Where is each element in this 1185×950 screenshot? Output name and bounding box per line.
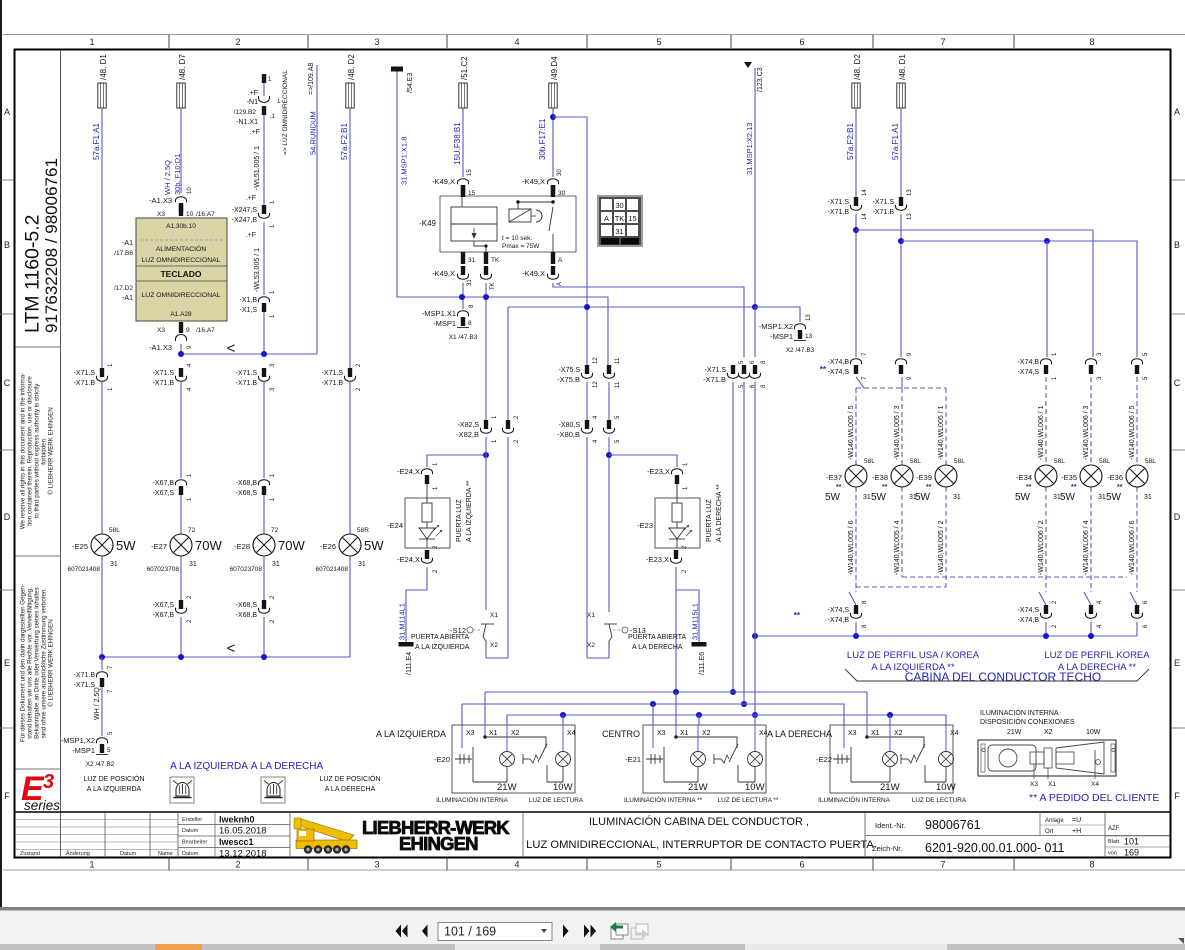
wire 57a.F2:B1 right xyxy=(855,108,857,197)
svg-text:70W: 70W xyxy=(278,538,305,553)
lamp E27 70W xyxy=(146,527,222,573)
svg-text:-W140,WL006 / 5: -W140,WL006 / 5 xyxy=(1129,405,1136,460)
wire module stubs xyxy=(462,692,890,725)
svg-text:10W: 10W xyxy=(936,782,956,793)
svg-text:-X71.B: -X71.B xyxy=(153,380,175,387)
svg-text:X3: X3 xyxy=(157,211,165,218)
svg-text:A: A xyxy=(604,214,609,223)
label LUZ DE PERFIL USA/KOREA xyxy=(847,650,980,673)
svg-text:=> LUZ OMNIDIRECCIONAL: => LUZ OMNIDIRECCIONAL xyxy=(282,70,289,155)
svg-text:-X1,B: -X1,B xyxy=(239,297,257,304)
svg-text:-E25: -E25 xyxy=(72,542,88,551)
svg-text:31: 31 xyxy=(358,561,366,568)
lamp E39 5W xyxy=(915,405,965,575)
wire 31.MSP1:X2.13 xyxy=(754,68,756,307)
svg-text:31.M115L1: 31.M115L1 xyxy=(691,603,700,640)
wire X71.3 down xyxy=(263,382,265,478)
svg-text:A LA DERECHA **: A LA DERECHA ** xyxy=(716,484,723,542)
svg-text:X4: X4 xyxy=(1091,781,1099,788)
svg-text:30: 30 xyxy=(558,190,566,197)
svg-text:**: ** xyxy=(1117,484,1123,491)
svg-text:-MSP1: -MSP1 xyxy=(433,319,456,328)
fixture drawing ILUMINACION INTERNA DISPOSICION CONEXIONES xyxy=(978,708,1116,788)
svg-text:LUZ OMNIDIRECCIONAL: LUZ OMNIDIRECCIONAL xyxy=(142,257,221,264)
lamp E36 5W xyxy=(1106,405,1156,575)
fuse F17 30b.F17:E1 xyxy=(538,56,559,160)
connector X71 pins 5 6 8 xyxy=(703,360,767,388)
svg-text:/51.C2: /51.C2 xyxy=(460,56,469,80)
svg-text:A1.A28: A1.A28 xyxy=(170,311,192,318)
svg-text:LUZ DE PERFIL KOREA: LUZ DE PERFIL KOREA xyxy=(1044,650,1150,661)
interior light module E20 xyxy=(376,725,584,804)
svg-text:=>/109.A8: =>/109.A8 xyxy=(308,63,315,95)
svg-text:-X80,S: -X80,S xyxy=(559,422,581,429)
wire 54.RUNDUM vertical xyxy=(316,65,318,354)
wire WL51.005 vertical xyxy=(254,83,264,205)
svg-text:D: D xyxy=(4,512,11,522)
svg-text:8: 8 xyxy=(468,320,472,327)
svg-text:-X71.S: -X71.S xyxy=(828,199,850,206)
svg-text:5W: 5W xyxy=(116,538,136,553)
svg-text:X4: X4 xyxy=(950,730,959,737)
svg-text:DISPOSICIÓN CONEXIONES: DISPOSICIÓN CONEXIONES xyxy=(980,717,1075,726)
svg-text:Datum: Datum xyxy=(182,828,199,834)
svg-text:/48. D1: /48. D1 xyxy=(898,54,907,80)
svg-text:Pmax = 75W: Pmax = 75W xyxy=(502,243,540,250)
svg-text:-MSP1: -MSP1 xyxy=(770,332,793,341)
svg-text:AZF: AZF xyxy=(1108,826,1120,832)
wire E24 to M114 ref xyxy=(406,567,427,642)
wire E27 down xyxy=(180,556,182,600)
svg-text:Ident.-Nr.: Ident.-Nr. xyxy=(875,821,906,830)
svg-text:3: 3 xyxy=(43,771,54,793)
svg-text:X2: X2 xyxy=(587,642,595,649)
svg-text:-X71.B: -X71.B xyxy=(322,380,344,387)
svg-text:11: 11 xyxy=(615,357,621,364)
connector X82 pin 2 xyxy=(456,415,520,443)
svg-text:X3: X3 xyxy=(1030,781,1038,788)
svg-text:-MSP1: -MSP1 xyxy=(72,746,95,755)
label LUZ DE POSICION A LA DERECHA xyxy=(319,774,380,793)
fuse F2 57a.F2:B1 left xyxy=(340,54,356,160)
svg-text:3: 3 xyxy=(374,860,379,870)
wire E23 to M115 ref xyxy=(675,567,677,691)
svg-text:8: 8 xyxy=(1089,860,1094,870)
svg-text:X1 /47.B3: X1 /47.B3 xyxy=(449,334,478,341)
svg-text:-E24,X: -E24,X xyxy=(397,555,420,564)
svg-text:13: 13 xyxy=(907,213,913,220)
svg-text:Ort: Ort xyxy=(1045,829,1054,835)
svg-text:10: 10 xyxy=(186,211,194,218)
wire X71.2 to lamp E26 xyxy=(349,382,351,534)
svg-text:Iweknh0: Iweknh0 xyxy=(219,815,255,825)
svg-text:forbidden.: forbidden. xyxy=(41,437,48,465)
svg-text:10: 10 xyxy=(187,187,193,194)
svg-text:-E36: -E36 xyxy=(1107,473,1123,482)
svg-text:X2: X2 xyxy=(894,730,903,737)
svg-text:X2 /47.B2: X2 /47.B2 xyxy=(86,761,115,768)
svg-text:**: ** xyxy=(926,484,932,491)
wire X80.4 down to S13 xyxy=(586,437,588,658)
svg-text:CABINA DEL CONDUCTOR TECHO: CABINA DEL CONDUCTOR TECHO xyxy=(905,670,1101,684)
svg-text:-X71.S: -X71.S xyxy=(873,199,895,206)
svg-text:LUZ DE LECTURA: LUZ DE LECTURA xyxy=(529,797,584,804)
svg-text:31: 31 xyxy=(615,227,623,236)
svg-text:8: 8 xyxy=(1089,37,1094,47)
svg-text:A LA IZQUIERDA: A LA IZQUIERDA xyxy=(170,761,248,772)
wire ground bus 31 right xyxy=(752,633,1137,639)
connector E23.X pin 2 xyxy=(646,545,688,573)
svg-text:Für dieses Dokument und den da: Für dieses Dokument und den darin darges… xyxy=(20,584,27,742)
connector MSP1.X2 pin 13 xyxy=(755,307,815,354)
wire bus X3 lamps xyxy=(462,701,844,725)
svg-text:Zustand: Zustand xyxy=(20,851,40,857)
svg-text:-N1: -N1 xyxy=(247,99,258,106)
svg-text:A LA IZQUIERDA: A LA IZQUIERDA xyxy=(415,644,470,651)
svg-text:31: 31 xyxy=(863,494,871,501)
wire WL53.005 vertical xyxy=(246,222,264,295)
svg-text:/54.E3: /54.E3 xyxy=(407,73,414,93)
svg-text:-X67,S: -X67,S xyxy=(153,602,175,609)
svg-text:Datum: Datum xyxy=(120,851,137,857)
svg-text:31.MSP1:X2.13: 31.MSP1:X2.13 xyxy=(745,122,754,175)
svg-text:101: 101 xyxy=(1124,837,1139,847)
svg-text:5W: 5W xyxy=(1106,492,1122,503)
wire 30b.F10:D1 vertical xyxy=(180,108,182,193)
svg-text:-W140,WL005 / 3: -W140,WL005 / 3 xyxy=(894,405,901,460)
svg-text:Anlage: Anlage xyxy=(1045,818,1064,824)
svg-text:-E39: -E39 xyxy=(916,473,932,482)
svg-text:Bekanntgabe an Dritte oder Ver: Bekanntgabe an Dritte oder Verwertung se… xyxy=(34,587,41,739)
svg-text:-W140,WL006 / 1: -W140,WL006 / 1 xyxy=(1038,405,1045,460)
wire dashed harness top xyxy=(856,377,1137,592)
svg-text:X1: X1 xyxy=(587,612,595,619)
svg-text:t = 10 sek.: t = 10 sek. xyxy=(502,235,532,242)
svg-text:**: ** xyxy=(882,484,888,491)
wire 57a.F1:A1 vertical xyxy=(101,108,103,368)
svg-text:58L: 58L xyxy=(1145,458,1156,465)
svg-text:=U: =U xyxy=(1072,817,1081,824)
svg-text:4: 4 xyxy=(514,860,519,870)
svg-text:-X75.S: -X75.S xyxy=(559,367,581,374)
svg-text:-X71.B: -X71.B xyxy=(703,375,726,384)
svg-text:X2 /47.B3: X2 /47.B3 xyxy=(786,347,815,354)
svg-text:5W: 5W xyxy=(871,492,887,503)
svg-text:-X1,S: -X1,S xyxy=(239,307,257,314)
svg-text:/129.B2: /129.B2 xyxy=(234,109,257,116)
svg-text:6: 6 xyxy=(799,37,804,47)
svg-text:ILUMINACIÓN INTERNA: ILUMINACIÓN INTERNA xyxy=(436,795,508,804)
fuse F1b 57a.F1:A1 right xyxy=(891,54,907,160)
svg-text:-K49: -K49 xyxy=(419,219,436,228)
wire S12 loop xyxy=(486,437,508,658)
wire bus right to X74.5 xyxy=(898,214,1137,357)
svg-text:-E27: -E27 xyxy=(151,542,167,551)
svg-text:LUZ OMNIDIRECCIONAL: LUZ OMNIDIRECCIONAL xyxy=(142,292,221,299)
svg-text:X3: X3 xyxy=(157,327,165,334)
svg-text:-K49,X: -K49,X xyxy=(522,269,545,278)
svg-text:+H: +H xyxy=(1072,828,1081,835)
switch S13 door contact xyxy=(587,612,646,649)
svg-text:sind ohne unsere ausdrückliche: sind ohne unsere ausdrückliche Zustimmun… xyxy=(41,588,48,739)
svg-text:LUZ DE POSICIÓN: LUZ DE POSICIÓN xyxy=(319,774,380,783)
beacon icon left xyxy=(170,777,194,803)
connector K49.X pin 30 xyxy=(522,169,566,197)
svg-text:ALIMENTACIÓN: ALIMENTACIÓN xyxy=(156,244,207,253)
svg-text:LUZ OMNIDIRECCIONAL, INTERRUPT: LUZ OMNIDIRECCIONAL, INTERRUPTOR DE CONT… xyxy=(526,839,874,851)
label LUZ DE POSICION A LA IZQUIERDA xyxy=(83,774,144,793)
wire bus X2 X4 lamps xyxy=(507,712,946,725)
label CABINA DEL CONDUCTOR TECHO xyxy=(845,669,1149,684)
wire 30b.F17:E1 vertical xyxy=(550,108,556,177)
svg-text:© LIEBHERR WERK EHINGEN: © LIEBHERR WERK EHINGEN xyxy=(48,407,55,494)
svg-text:B: B xyxy=(4,240,10,250)
svg-text:5: 5 xyxy=(656,37,661,47)
svg-text:-X68,S: -X68,S xyxy=(236,602,258,609)
svg-text:-X71.B: -X71.B xyxy=(236,380,258,387)
connector X67 pin 1 xyxy=(178,482,183,487)
connector X68 pin 2 xyxy=(261,609,266,614)
wire X67 to lamp E27 xyxy=(180,495,182,534)
svg-text:4: 4 xyxy=(514,37,519,47)
svg-text:WH / 2.5Q: WH / 2.5Q xyxy=(94,687,101,720)
svg-text:-W140,WL006 / 6: -W140,WL006 / 6 xyxy=(1129,520,1136,575)
page ref 31.M115L1 /111.E6 xyxy=(691,603,707,675)
connector MSP1.X2 pin 5 xyxy=(61,731,115,768)
interior light module E21 xyxy=(602,725,779,804)
svg-text:1: 1 xyxy=(89,37,94,47)
svg-text:-E23,X: -E23,X xyxy=(646,555,669,564)
wire 31.MSP1:X1.8 xyxy=(397,72,608,366)
svg-text:12: 12 xyxy=(593,357,599,364)
svg-text:-X74,B: -X74,B xyxy=(1018,359,1040,366)
svg-text:5W: 5W xyxy=(1060,492,1076,503)
svg-text:-W140,WL005 / 2: -W140,WL005 / 2 xyxy=(938,520,945,575)
svg-text:PUERTA LUZ: PUERTA LUZ xyxy=(456,499,463,542)
wire 57a.F2:B1 left vertical xyxy=(349,108,351,368)
svg-text:WH / 2.5Q: WH / 2.5Q xyxy=(163,160,172,195)
svg-text:ILUMINACIÓN CABINA DEL CONDUCT: ILUMINACIÓN CABINA DEL CONDUCTOR , xyxy=(589,815,809,828)
LED unit E24 xyxy=(387,480,473,548)
svg-text:607021408: 607021408 xyxy=(67,566,100,573)
svg-text:**: ** xyxy=(1071,484,1077,491)
svg-text:15: 15 xyxy=(468,190,476,197)
svg-text:-N1.X1: -N1.X1 xyxy=(236,119,258,126)
connector X74 pin 6 bottom xyxy=(1130,592,1149,636)
svg-text:15: 15 xyxy=(628,214,636,223)
wire X71.8 drop xyxy=(752,382,758,718)
svg-text:A LA IZQUIERDA **: A LA IZQUIERDA ** xyxy=(466,480,473,542)
wire bus 31 left xyxy=(178,351,317,357)
connector X71 pin 14 xyxy=(853,206,858,211)
svg-text:-X74,B: -X74,B xyxy=(828,617,850,624)
svg-text:-X71.S: -X71.S xyxy=(322,370,344,377)
svg-text:/48. D2: /48. D2 xyxy=(853,54,862,80)
svg-text:15: 15 xyxy=(467,169,473,176)
svg-text:A LA DERECHA: A LA DERECHA xyxy=(251,761,324,772)
page ref 31.M114L1 /111.E4 xyxy=(398,603,414,675)
svg-text:X2: X2 xyxy=(702,730,711,737)
svg-text:X3: X3 xyxy=(848,730,857,737)
svg-text:14: 14 xyxy=(862,213,868,220)
svg-text:-E35: -E35 xyxy=(1061,473,1077,482)
svg-text:-E28: -E28 xyxy=(234,542,250,551)
connector X1 xyxy=(261,299,266,304)
svg-text:10W: 10W xyxy=(553,782,573,793)
svg-text:-X74,S: -X74,S xyxy=(1018,369,1040,376)
svg-text:2: 2 xyxy=(235,37,240,47)
svg-text:-E20: -E20 xyxy=(434,755,450,764)
svg-text:57a.F2:B1: 57a.F2:B1 xyxy=(340,123,349,160)
svg-text:21W: 21W xyxy=(880,782,900,793)
connector X71 pin 1 xyxy=(99,377,104,382)
lamp E38 5W xyxy=(871,405,921,575)
svg-text:X1: X1 xyxy=(490,612,498,619)
svg-text:6: 6 xyxy=(799,860,804,870)
svg-text:-X82,S: -X82,S xyxy=(458,422,480,429)
svg-text:607023708: 607023708 xyxy=(146,566,179,573)
svg-text:5: 5 xyxy=(656,860,661,870)
svg-text:58R: 58R xyxy=(357,527,369,534)
wire keypad to bus xyxy=(180,344,182,354)
svg-text:30: 30 xyxy=(615,201,623,210)
svg-text:<: < xyxy=(227,340,236,357)
svg-text:-W140,WL005 / 4: -W140,WL005 / 4 xyxy=(894,520,901,575)
lamp E26 5W xyxy=(315,527,384,573)
svg-text:TK: TK xyxy=(491,257,500,264)
svg-text:2: 2 xyxy=(235,860,240,870)
wire K49 A to X71 pin6 xyxy=(553,283,744,357)
svg-text:31: 31 xyxy=(189,561,197,568)
svg-text:-X71.B: -X71.B xyxy=(828,209,850,216)
svg-text:-E22: -E22 xyxy=(816,755,832,764)
connector X74 pin 1 top xyxy=(1018,352,1058,380)
svg-text:-X67,S: -X67,S xyxy=(153,490,175,497)
svg-text:31: 31 xyxy=(468,257,476,264)
connector X71 pin 13 xyxy=(898,206,903,211)
connector X74 pin 8 bottom xyxy=(828,592,868,636)
fuse F1 57a.F1:A1 xyxy=(92,54,108,160)
svg-text:TK: TK xyxy=(490,282,496,290)
svg-text:57a.F1:A1: 57a.F1:A1 xyxy=(92,123,101,160)
svg-text:70W: 70W xyxy=(195,538,222,553)
svg-text:-X74,S: -X74,S xyxy=(828,607,850,614)
svg-text:12: 12 xyxy=(593,381,599,388)
lamp E35 5W xyxy=(1060,405,1110,575)
wire branch to X75 feed xyxy=(553,117,587,365)
svg-text:-X75.B: -X75.B xyxy=(557,375,580,384)
svg-text:13: 13 xyxy=(805,333,813,340)
connector X74 pin 4 bottom xyxy=(1084,592,1103,636)
svg-text:7: 7 xyxy=(940,860,945,870)
svg-text:5: 5 xyxy=(107,747,111,754)
svg-text:PUERTA ABIERTA: PUERTA ABIERTA xyxy=(411,634,470,641)
svg-text:E: E xyxy=(4,658,10,668)
svg-text:-E26: -E26 xyxy=(320,542,336,551)
svg-text:C: C xyxy=(4,378,11,388)
relay K49 xyxy=(419,196,576,252)
svg-text:31: 31 xyxy=(110,561,118,568)
svg-text:X4: X4 xyxy=(567,730,576,737)
connector X71 pin 4 xyxy=(178,377,183,382)
svg-text:**: ** xyxy=(836,484,842,491)
wire S12 return to MSP1.X2 xyxy=(507,307,509,420)
page ref /123.C3 31.MSP1:X2.13 xyxy=(744,62,764,175)
wire K49 pin31 to MSP1.X1 xyxy=(459,283,465,309)
svg-text:A: A xyxy=(557,282,563,286)
svg-text:-X80,B: -X80,B xyxy=(557,430,580,439)
wire E23 jog to page ref xyxy=(676,590,699,642)
node N1 supply xyxy=(234,74,281,136)
svg-text:EHINGEN: EHINGEN xyxy=(399,833,478,854)
svg-text:/123.C3: /123.C3 xyxy=(757,67,764,92)
svg-text:We reserve all rights in this: We reserve all rights in this document a… xyxy=(20,373,27,529)
svg-text:-X71.B: -X71.B xyxy=(873,209,895,216)
svg-text:B: B xyxy=(1174,240,1180,250)
svg-text:series: series xyxy=(24,798,60,813)
wire X75 to X80 xyxy=(587,382,609,420)
label PUERTA ABIERTA A LA IZQUIERDA xyxy=(411,634,470,651)
svg-text:-X68,B: -X68,B xyxy=(236,612,258,619)
svg-text:169: 169 xyxy=(1124,848,1139,858)
svg-text:-X74,B: -X74,B xyxy=(1018,617,1040,624)
connector E24.X pin 1 xyxy=(397,452,489,490)
svg-text:-WL51.005 / 1: -WL51.005 / 1 xyxy=(254,146,261,190)
wire K49 TK to S12 xyxy=(483,283,489,420)
svg-text:LUZ DE PERFIL USA / KOREA: LUZ DE PERFIL USA / KOREA xyxy=(847,650,980,661)
svg-text:5W: 5W xyxy=(364,538,384,553)
svg-text:-X67,B: -X67,B xyxy=(153,612,175,619)
svg-text:58L: 58L xyxy=(109,527,120,534)
svg-text:Zeich-Nr.: Zeich-Nr. xyxy=(872,844,902,853)
svg-text:PUERTA ABIERTA: PUERTA ABIERTA xyxy=(628,634,687,641)
svg-text:31: 31 xyxy=(953,494,961,501)
svg-text:X2: X2 xyxy=(511,730,520,737)
connector X247 xyxy=(232,195,276,228)
svg-text:-K49,X: -K49,X xyxy=(522,177,545,186)
svg-text:-K49,X: -K49,X xyxy=(432,269,455,278)
svg-text:.+F: .+F xyxy=(250,129,260,136)
svg-text:A LA DERECHA: A LA DERECHA xyxy=(632,644,683,651)
connector X82 pin 1 xyxy=(483,429,488,434)
svg-text:13.12.2018: 13.12.2018 xyxy=(219,849,267,860)
svg-text:F: F xyxy=(1174,791,1180,801)
svg-text:-X71.B: -X71.B xyxy=(74,380,96,387)
svg-text:F: F xyxy=(4,791,10,801)
lamp E28 70W xyxy=(229,527,305,573)
svg-text:/48. D7: /48. D7 xyxy=(178,54,187,80)
svg-text:-X74,B: -X74,B xyxy=(828,359,850,366)
svg-text:to third parties without expre: to third parties without express authori… xyxy=(34,383,41,519)
wire X68 to lamp E28 xyxy=(263,495,265,534)
wire X67.2 to bus xyxy=(180,617,182,657)
svg-text:72: 72 xyxy=(271,527,279,534)
svg-text:.+F: .+F xyxy=(246,232,256,239)
svg-text:1: 1 xyxy=(89,860,94,870)
svg-text:31: 31 xyxy=(1144,494,1152,501)
svg-text:LTM 1160-5.2: LTM 1160-5.2 xyxy=(22,214,44,333)
svg-text:-X71.S: -X71.S xyxy=(153,370,175,377)
svg-text:917632208 / 98006761: 917632208 / 98006761 xyxy=(42,158,61,333)
svg-text:21W: 21W xyxy=(1007,729,1022,736)
svg-text:Name: Name xyxy=(158,851,173,857)
svg-text:58L: 58L xyxy=(910,458,921,465)
svg-text:101 / 169: 101 / 169 xyxy=(444,925,496,939)
wire X68.2 to bus xyxy=(263,617,265,657)
svg-text:,1: ,1 xyxy=(270,114,276,120)
wire 15U.F38:B1 vertical xyxy=(462,108,464,177)
svg-text:6201-920.00.01.000- 011: 6201-920.00.01.000- 011 xyxy=(925,841,1065,855)
